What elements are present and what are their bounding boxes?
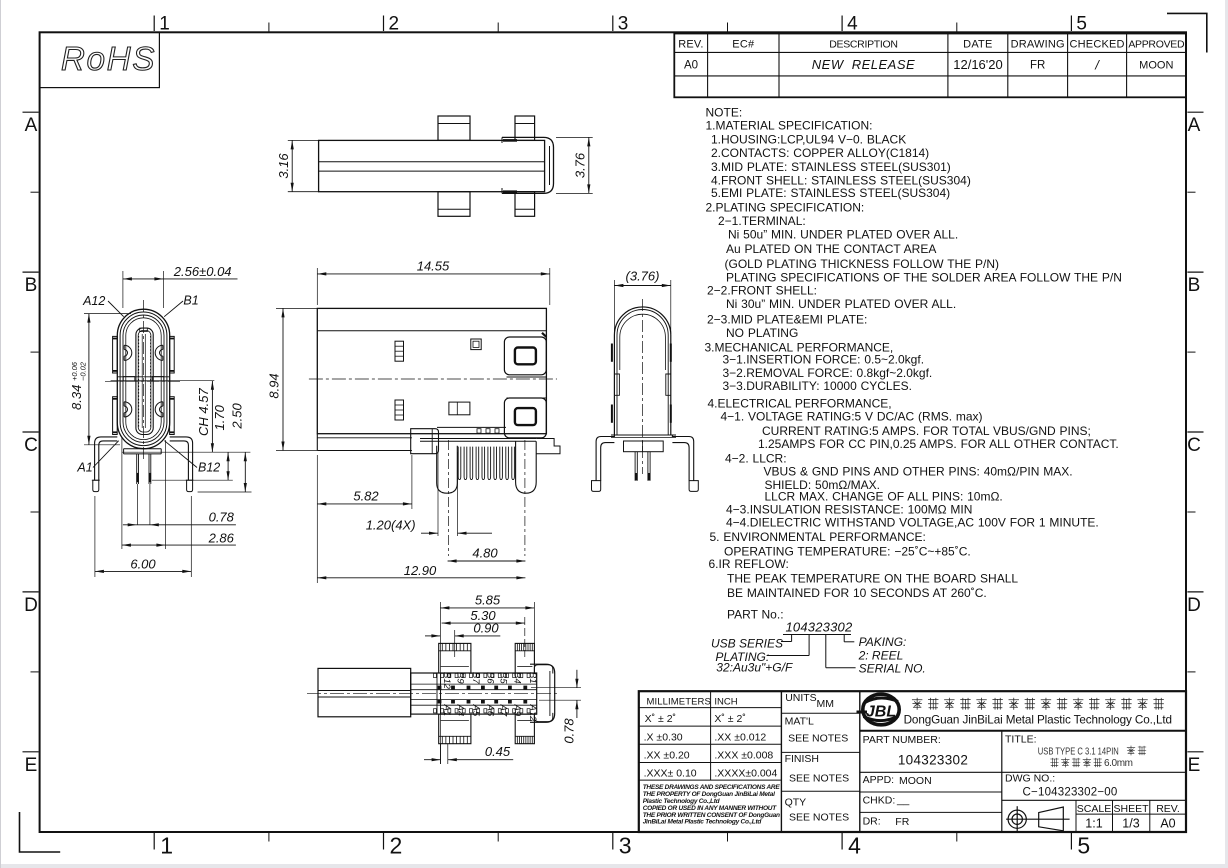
svg-text:SEE NOTES: SEE NOTES: [789, 773, 849, 785]
svg-text:VBUS & GND PINS AND OTHER: VBUS & GND PINS AND OTHER PINS: 40mΩ/PIN…: [764, 465, 1073, 479]
svg-text:2.CONTACTS: COPPER ALLOY(C18: 2.CONTACTS: COPPER ALLOY(C1814): [711, 146, 929, 160]
svg-text:FINISH: FINISH: [785, 753, 819, 765]
svg-text:B6: B6: [484, 672, 495, 684]
svg-text:2.56±0.04: 2.56±0.04: [173, 264, 232, 279]
svg-text:C: C: [1187, 435, 1201, 456]
svg-text:4: 4: [848, 833, 861, 859]
svg-text:X˚ ± 2˚: X˚ ± 2˚: [714, 713, 745, 725]
svg-text:3−1.INSERTION FORCE: 0.5~2.0: 3−1.INSERTION FORCE: 0.5~2.0kgf.: [723, 353, 925, 367]
svg-text:A: A: [1188, 115, 1201, 136]
svg-text:B1: B1: [527, 672, 538, 684]
svg-text:3.16: 3.16: [276, 153, 291, 179]
svg-text:2: 2: [389, 14, 400, 35]
svg-text:JBL: JBL: [866, 704, 896, 721]
svg-text:A12: A12: [82, 294, 105, 308]
svg-text:SCALE: SCALE: [1077, 803, 1111, 815]
svg-text:1: 1: [159, 14, 170, 35]
svg-text:APPROVED: APPROVED: [1128, 39, 1185, 51]
svg-text:REV.: REV.: [678, 39, 703, 51]
svg-text:D: D: [1187, 595, 1201, 616]
svg-text:1.20(4X): 1.20(4X): [366, 518, 416, 533]
svg-text:8.94: 8.94: [267, 373, 282, 398]
svg-text:1:1: 1:1: [1085, 817, 1102, 831]
svg-text:A5: A5: [470, 704, 481, 717]
svg-text:NO PLATING: NO PLATING: [726, 326, 798, 340]
svg-text:3: 3: [619, 833, 632, 859]
svg-text:12.90: 12.90: [404, 563, 437, 578]
svg-text:(3.76): (3.76): [626, 269, 660, 284]
svg-text:8.34: 8.34: [69, 385, 84, 410]
svg-text:A: A: [25, 115, 38, 136]
svg-text:104323302: 104323302: [898, 753, 968, 768]
svg-text:NOTE:: NOTE:: [706, 106, 743, 120]
svg-text:2.86: 2.86: [208, 530, 235, 545]
svg-text:A0: A0: [1160, 817, 1175, 831]
svg-text:6.0mm: 6.0mm: [1104, 758, 1133, 769]
svg-text:DESCRIPTION: DESCRIPTION: [829, 39, 897, 51]
svg-text:A12: A12: [527, 704, 538, 723]
svg-text:MM: MM: [817, 698, 835, 710]
svg-text:X˚ ± 2˚: X˚ ± 2˚: [645, 713, 676, 725]
svg-text:12/16'20: 12/16'20: [953, 57, 1002, 72]
svg-text:E: E: [1188, 755, 1201, 776]
svg-text:1: 1: [160, 833, 173, 859]
svg-text:A0: A0: [684, 60, 698, 72]
svg-text:B9: B9: [455, 672, 466, 684]
svg-text:INCH: INCH: [714, 697, 737, 708]
svg-text:3: 3: [618, 14, 629, 35]
svg-text:5: 5: [1076, 14, 1087, 35]
svg-text:C−104323302−00: C−104323302−00: [1023, 787, 1118, 799]
svg-text:DR:: DR:: [863, 816, 881, 828]
svg-text:6.IR REFLOW:: 6.IR REFLOW:: [709, 557, 789, 571]
svg-text:4−1. VOLTAGE RATING:5 V DC: 4−1. VOLTAGE RATING:5 V DC/AC (RMS. max): [721, 410, 983, 424]
svg-text:.XX ±0.012: .XX ±0.012: [714, 732, 766, 744]
svg-text:3.MID PLATE: STAINLESS STEE: 3.MID PLATE: STAINLESS STEEL(SUS301): [711, 160, 951, 174]
svg-text:B: B: [1188, 275, 1201, 296]
svg-text:MILLIMETERS: MILLIMETERS: [647, 697, 711, 708]
svg-text:B5: B5: [498, 672, 509, 684]
svg-text:2.PLATING SPECIFICATION:: 2.PLATING SPECIFICATION:: [706, 201, 865, 215]
svg-text:DongGuan JinBiLai Metal Pla: DongGuan JinBiLai Metal Plastic Technolo…: [904, 714, 1172, 727]
svg-text:USB SERIES: USB SERIES: [711, 637, 783, 651]
svg-text:5.EMI PLATE: STAINLESS STEE: 5.EMI PLATE: STAINLESS STEEL(SUS304): [711, 186, 950, 200]
svg-text:TITLE:: TITLE:: [1005, 734, 1037, 746]
svg-text:A1: A1: [76, 461, 92, 475]
svg-text:SHEET: SHEET: [1113, 803, 1149, 815]
svg-text:DRAWING: DRAWING: [1011, 39, 1065, 51]
svg-text:0.78: 0.78: [209, 510, 235, 525]
svg-text:B: B: [25, 275, 38, 296]
svg-text:3−3.DURABILITY: 10000 CYCLES: 3−3.DURABILITY: 10000 CYCLES.: [723, 379, 912, 393]
svg-text:.X ±0.30: .X ±0.30: [644, 732, 683, 744]
svg-text:MAT'L: MAT'L: [785, 716, 814, 728]
svg-text:USB TYPE C 3.1 14PIN: USB TYPE C 3.1 14PIN: [1038, 747, 1119, 758]
svg-text:CH 4.57: CH 4.57: [196, 388, 211, 436]
svg-text:E: E: [25, 755, 38, 776]
svg-text:1.HOUSING:LCP,UL94 V−0. BLAC: 1.HOUSING:LCP,UL94 V−0. BLACK: [711, 133, 906, 147]
svg-text:2−1.TERMINAL:: 2−1.TERMINAL:: [718, 214, 806, 228]
svg-text:SEE NOTES: SEE NOTES: [788, 733, 848, 745]
svg-text:0.90: 0.90: [473, 620, 499, 635]
svg-text:A6: A6: [484, 704, 495, 717]
svg-text:.XXX± 0.10: .XXX± 0.10: [644, 768, 697, 780]
svg-text:SERIAL NO.: SERIAL NO.: [859, 662, 926, 676]
svg-text:B7: B7: [470, 672, 481, 684]
svg-text:0.45: 0.45: [485, 744, 511, 759]
svg-text:Ni 30u” MIN. UNDER PLATED: Ni 30u” MIN. UNDER PLATED OVER ALL.: [726, 297, 956, 311]
svg-text:BE MAINTAINED FOR 10 SECON: BE MAINTAINED FOR 10 SECONDS AT 260˚C.: [727, 586, 987, 600]
svg-text:32:Au3u"+G/F: 32:Au3u"+G/F: [716, 661, 793, 675]
svg-text:A9: A9: [511, 704, 522, 717]
svg-text:.XXXX±0.004: .XXXX±0.004: [714, 768, 777, 780]
svg-text:104323302: 104323302: [786, 620, 853, 635]
svg-text:SEE NOTES: SEE NOTES: [789, 812, 849, 824]
svg-text:4: 4: [847, 14, 858, 35]
svg-text:B4: B4: [511, 672, 522, 684]
svg-text:4.ELECTRICAL PERFORMANCE,: 4.ELECTRICAL PERFORMANCE,: [708, 397, 892, 411]
svg-text:5.82: 5.82: [353, 489, 379, 504]
svg-text:2: 2: [390, 833, 403, 859]
svg-text:MOON: MOON: [899, 775, 932, 787]
svg-text:5.85: 5.85: [475, 593, 501, 608]
svg-text:B1: B1: [183, 293, 198, 307]
svg-text:5. ENVIRONMENTAL PERFORMANCE: 5. ENVIRONMENTAL PERFORMANCE:: [710, 530, 926, 544]
svg-text:C: C: [24, 435, 38, 456]
svg-text:QTY: QTY: [785, 797, 807, 809]
svg-text:1/3: 1/3: [1122, 817, 1139, 831]
svg-text:JinBiLai Metal Plastic Technol: JinBiLai Metal Plastic Technology Co.,Lt…: [643, 819, 763, 826]
svg-text:.XX ±0.20: .XX ±0.20: [644, 750, 690, 762]
svg-text:PAKING:: PAKING:: [859, 635, 907, 649]
svg-text:B12: B12: [198, 461, 220, 475]
svg-text:CURRENT RATING:5 AMPS. FOR: CURRENT RATING:5 AMPS. FOR TOTAL VBUS/GN…: [762, 424, 1091, 438]
svg-text:2−3.MID PLATE&EMI PLATE:: 2−3.MID PLATE&EMI PLATE:: [707, 313, 867, 327]
svg-text:__: __: [896, 794, 910, 806]
svg-text:2.50: 2.50: [230, 403, 245, 430]
svg-text:3−2.REMOVAL FORCE: 0.8kgf~2.: 3−2.REMOVAL FORCE: 0.8kgf~2.0kgf.: [723, 366, 933, 380]
svg-text:FR: FR: [1030, 60, 1045, 72]
svg-text:PART No.:: PART No.:: [727, 608, 784, 622]
svg-text:3.76: 3.76: [573, 152, 588, 178]
svg-text:6.00: 6.00: [130, 556, 156, 571]
svg-text:−0.02: −0.02: [79, 361, 88, 381]
svg-text:DWG NO.:: DWG NO.:: [1005, 773, 1055, 785]
svg-text:MOON: MOON: [1139, 60, 1173, 72]
svg-text:CHECKED: CHECKED: [1070, 39, 1125, 51]
svg-text:(GOLD PLATING THICKNESS FOL: (GOLD PLATING THICKNESS FOLLOW THE P/N): [725, 257, 1000, 271]
svg-text:4−3.INSULATION RESISTANCE: 1: 4−3.INSULATION RESISTANCE: 100MΩ MIN: [726, 503, 972, 517]
svg-text:THE PEAK TEMPERATURE ON TH: THE PEAK TEMPERATURE ON THE BOARD SHALL: [727, 572, 1018, 586]
svg-text:PLATING SPECIFICATIONS OF T: PLATING SPECIFICATIONS OF THE SOLDER ARE…: [726, 271, 1122, 285]
svg-text:Ni 50u” MIN. UNDER PLATED: Ni 50u” MIN. UNDER PLATED OVER ALL.: [728, 228, 958, 242]
svg-text:REV.: REV.: [1156, 803, 1180, 815]
svg-text:UNITS: UNITS: [785, 692, 817, 704]
svg-text:5: 5: [1077, 833, 1090, 859]
svg-text:CHKD:: CHKD:: [863, 795, 896, 807]
svg-text:PART NUMBER:: PART NUMBER:: [863, 734, 941, 746]
svg-text:RoHS: RoHS: [61, 40, 156, 77]
svg-text:.XXX ±0.008: .XXX ±0.008: [714, 750, 773, 762]
svg-text:APPD:: APPD:: [863, 774, 895, 786]
svg-text:1.25AMPS FOR CC PIN,0.25 A: 1.25AMPS FOR CC PIN,0.25 AMPS. FOR ALL O…: [758, 437, 1119, 451]
svg-text:LLCR MAX. CHANGE OF ALL P: LLCR MAX. CHANGE OF ALL PINS: 10mΩ.: [765, 490, 1003, 504]
svg-text:4−4.DIELECTRIC WITHSTAND VOL: 4−4.DIELECTRIC WITHSTAND VOLTAGE,AC 100V…: [726, 516, 1099, 530]
svg-text:EC#: EC#: [732, 39, 755, 51]
svg-text:4.80: 4.80: [472, 546, 498, 561]
svg-text:1.MATERIAL SPECIFICATION:: 1.MATERIAL SPECIFICATION:: [706, 119, 873, 133]
svg-text:Au PLATED ON THE CONTACT: Au PLATED ON THE CONTACT AREA: [726, 242, 936, 256]
svg-text:A7: A7: [498, 704, 509, 717]
svg-text:NEW RELEASE: NEW RELEASE: [812, 57, 915, 72]
svg-text:2−2.FRONT SHELL:: 2−2.FRONT SHELL:: [707, 284, 817, 298]
svg-text:0.78: 0.78: [562, 718, 577, 744]
svg-text:D: D: [24, 595, 38, 616]
svg-text:1.70: 1.70: [212, 404, 227, 430]
svg-text:B12: B12: [441, 672, 452, 690]
svg-text:FR: FR: [895, 816, 909, 828]
svg-text:2: REEL: 2: REEL: [858, 649, 904, 663]
svg-text:4−2. LLCR:: 4−2. LLCR:: [725, 452, 787, 466]
svg-text:DATE: DATE: [963, 39, 992, 51]
svg-text:14.55: 14.55: [417, 259, 450, 274]
